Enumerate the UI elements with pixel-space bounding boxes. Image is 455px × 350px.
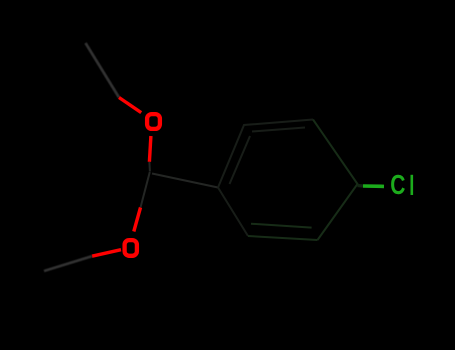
svg-text:C: C [390,170,405,201]
